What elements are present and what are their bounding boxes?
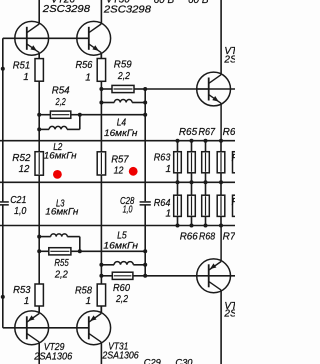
wire: bank column 1 middle lead [177, 173, 179, 195]
node: bank column 2 on upper rail [190, 139, 194, 143]
svg-text:R54: R54 [52, 85, 70, 96]
annotation: red dot marker (left) [53, 170, 62, 179]
wire: bank column 4 bottom lead [220, 216, 222, 225]
wire: bank column 4 top lead [220, 141, 222, 152]
node A (R51/R54 junction) [37, 113, 41, 117]
node: L5 left junction [99, 263, 103, 267]
svg-text:16мкГн: 16мкГн [44, 151, 78, 162]
svg-text:R56: R56 [76, 60, 93, 71]
resistor R59 body [112, 85, 134, 92]
resistor R64 body [174, 195, 182, 216]
node: R60 right junction / Q6 base node [143, 274, 147, 278]
transistor VT31 (2SA1306, PNP) [77, 306, 111, 345]
resistor R66 body [188, 195, 196, 216]
svg-text:2SC3298: 2SC3298 [42, 4, 91, 15]
svg-text:2,2: 2,2 [55, 97, 66, 108]
capacitor C21 plates (cut at left edge) [0, 201, 9, 203]
wire: R56 bottom to R59/L4 nodes and down across rail [100, 81, 102, 152]
wire: bank column 1 bottom lead [177, 216, 179, 225]
svg-text:R64: R64 [154, 198, 171, 209]
wire: bank column 2 bottom lead [191, 216, 193, 225]
wire: VT30 collector to top edge [100, 0, 102, 24]
svg-text:R72: R72 [232, 197, 236, 208]
svg-text:2SC3: 2SC3 [223, 55, 235, 66]
wire: R55 node wire right to output column [80, 250, 145, 252]
wire: R60 row left lead [101, 275, 113, 277]
wire: node A to L2 node to R52 [38, 115, 40, 152]
svg-text:60 В: 60 В [188, 0, 209, 6]
wire: left edge vertical bus (upper part) [2, 38, 4, 201]
wire: long horizontal rail (lower, bank bottom) [0, 225, 235, 227]
wire: bank column 3 bottom lead [205, 216, 207, 225]
svg-text:R68: R68 [199, 231, 215, 242]
svg-text:1: 1 [85, 296, 91, 307]
wire: L2 right lead up to node B [67, 128, 80, 130]
node: bank column 2 on lower rail [190, 224, 194, 228]
svg-text:2,2: 2,2 [117, 71, 130, 82]
svg-text:R53: R53 [13, 285, 31, 296]
svg-text:2SA1306: 2SA1306 [102, 350, 140, 361]
svg-text:R65: R65 [179, 127, 198, 138]
svg-text:R52: R52 [12, 153, 31, 164]
inductor L2 [49, 126, 67, 129]
node: R55 left junction [37, 249, 41, 253]
wire: bank column 3 middle lead [205, 173, 207, 195]
capacitor C28 plates [140, 201, 151, 203]
wire: L5 right lead [133, 264, 145, 266]
node: bank column 4 on lower rail [219, 224, 223, 228]
svg-text:R58: R58 [75, 286, 92, 297]
wire: L3 left lead [39, 236, 51, 238]
node: L3 left junction [37, 235, 41, 239]
node: junction on left bus (lower) [1, 295, 5, 299]
node: L4 left junction [99, 101, 103, 105]
transistor VT29 (2SA1306, PNP) [15, 306, 49, 345]
node: emitter-join wire junction [143, 113, 147, 117]
resistor R52 body [35, 152, 43, 176]
transistor VT30 (2SC3298, NPN) [77, 21, 111, 58]
svg-text:1: 1 [85, 73, 91, 84]
inductor L5 [114, 262, 133, 265]
svg-text:2SA1306: 2SA1306 [33, 351, 72, 362]
wire: R54 row from node A to node B [39, 114, 52, 116]
wire: long horizontal rail (upper, bank top) [0, 140, 235, 142]
node: L4 right junction [143, 101, 147, 105]
svg-text:16мкГн: 16мкГн [45, 207, 79, 218]
svg-text:R55: R55 [54, 258, 69, 269]
wire: VT29 collector to bottom edge [38, 342, 40, 364]
svg-text:C30: C30 [175, 357, 193, 364]
wire: R57 bottom down through rails to L5/R60 nodes [100, 175, 102, 265]
wire: R59 right lead to output column [134, 88, 145, 90]
wire: R55 row [39, 250, 50, 252]
svg-text:16мкГн: 16мкГн [103, 240, 138, 251]
resistor R65 body [188, 152, 196, 173]
annotation: red dot marker (right) [129, 167, 138, 176]
resistor R51 body [35, 59, 43, 82]
wire: bottom base wire tying VT29/VT31 bases [3, 327, 90, 329]
wire: VT32 collector to top edge [220, 0, 222, 75]
node: L5 right junction [143, 263, 147, 267]
node: junction of R55 wire with output column [143, 249, 147, 253]
wire: VT31 collector to bottom edge [100, 342, 102, 364]
svg-text:12: 12 [19, 164, 30, 175]
node: bank column 2 on middle rail [190, 180, 194, 184]
node: junction on left bus (upper) [1, 67, 5, 71]
wire: bank column 2 middle lead [191, 173, 193, 195]
svg-text:R66: R66 [180, 231, 198, 242]
resistor R60 body [112, 272, 133, 279]
node: L2 left junction [37, 127, 41, 131]
svg-text:C29: C29 [144, 357, 161, 364]
wire: bank column 4 middle lead [220, 173, 222, 195]
wire: node B to emitter-join wire toward output column [80, 114, 145, 116]
resistor R54 body [50, 111, 70, 118]
node: bank column 4 on middle rail [219, 180, 223, 184]
svg-text:12: 12 [114, 166, 124, 177]
wire: long horizontal rail (middle) [0, 181, 235, 183]
svg-text:C21: C21 [10, 195, 26, 206]
transistor VT32 (NPN, right) [197, 72, 231, 141]
svg-text:R63: R63 [154, 153, 171, 164]
inductor L4 [114, 100, 132, 103]
resistor R53 body [35, 284, 43, 306]
svg-text:R69: R69 [223, 127, 235, 138]
wire: R52 bottom down through rails to L3 node [38, 175, 40, 236]
svg-text:2SA1: 2SA1 [223, 308, 235, 319]
svg-text:1: 1 [165, 164, 171, 175]
wire: R60 right lead to output column [133, 275, 145, 277]
wire: bank column 1 top lead [177, 141, 179, 152]
svg-text:16мкГн: 16мкГн [104, 128, 138, 139]
svg-text:2SC3298: 2SC3298 [103, 5, 152, 16]
resistor R72 body (cut at right edge) [233, 195, 241, 216]
wire: L3 right lead down to R55 right node [67, 236, 80, 238]
wire: left edge vertical bus (lower part) [2, 204, 4, 327]
svg-text:1,0: 1,0 [123, 205, 133, 216]
svg-text:R67: R67 [199, 127, 216, 138]
resistor R68 body [202, 195, 210, 216]
wire: L4 left lead [101, 102, 114, 104]
svg-text:60 В: 60 В [154, 0, 175, 6]
node: bank column 3 on lower rail [204, 224, 208, 228]
wire: R53 bottom to VT29 emitter [38, 306, 40, 313]
wire: Q6 (VT34) base wire from output node [145, 275, 235, 277]
svg-text:1: 1 [165, 208, 171, 219]
wire: R51 bottom to R54 node [38, 81, 40, 115]
svg-text:R70: R70 [223, 231, 235, 242]
node: bank column 1 on middle rail [176, 180, 180, 184]
svg-text:1: 1 [23, 72, 29, 83]
wire: VT30 emitter to R56 [100, 53, 102, 59]
wire: top base wire tying VT26/VT30 bases [3, 37, 90, 39]
node: bank column 4 on upper rail [219, 139, 223, 143]
wire: VT26 emitter / R51 / node column [38, 53, 40, 59]
node: bank column 3 on middle rail [204, 180, 208, 184]
node: bank column 1 on upper rail [176, 139, 180, 143]
svg-text:2,2: 2,2 [115, 294, 128, 305]
svg-text:R59: R59 [114, 60, 132, 71]
wire: R59 row left lead [101, 88, 113, 90]
wire: L3 node to R55 node [38, 237, 40, 252]
svg-text:R71: R71 [232, 153, 236, 164]
svg-text:2,2: 2,2 [54, 270, 68, 281]
resistor R55 body [49, 248, 71, 255]
node: bank column 3 on upper rail [204, 139, 208, 143]
transistor VT26 (2SC3298, NPN) [15, 21, 49, 58]
node: bank column 1 on lower rail [176, 224, 180, 228]
node: R59 right junction [143, 87, 147, 91]
wire: VT34 collector to bottom edge [220, 290, 222, 364]
resistor R56 body [97, 59, 105, 82]
resistor R57 body [97, 152, 105, 175]
wire: L4 right lead [132, 102, 145, 104]
svg-text:1: 1 [24, 296, 30, 307]
wire: L2 left lead [39, 128, 49, 130]
resistor R58 body [97, 284, 105, 306]
wire: L5 node to R60 node to R58 [100, 265, 102, 284]
svg-text:R60: R60 [113, 283, 130, 294]
resistor R63 body [174, 152, 182, 173]
wire: output column from R59 node down to Q6 base node [144, 89, 146, 201]
node: R60 left junction [99, 274, 103, 278]
wire: R55 node down to R53 [38, 251, 40, 284]
node: R55/L3 right junction [78, 249, 82, 253]
wire: bank column 3 top lead [205, 141, 207, 152]
svg-text:1,0: 1,0 [14, 206, 27, 217]
node: R56/R59 junction [99, 87, 103, 91]
resistor R67 body [202, 152, 210, 173]
wire: R58 bottom to VT31 emitter [100, 306, 102, 313]
transistor VT34 (PNP, right) [197, 226, 231, 293]
svg-text:R57: R57 [111, 154, 129, 165]
inductor L3 [51, 234, 68, 237]
wire: L5 left lead [101, 264, 114, 266]
resistor R71 body (cut at right edge) [233, 152, 241, 173]
node B (R54/L2 right junction) [78, 113, 82, 117]
wire: bank column 2 top lead [191, 141, 193, 152]
resistor R69 body [217, 152, 225, 173]
wire: VT26 collector to top edge [38, 0, 40, 24]
wire: Q3 (VT32) base wire from output node [145, 88, 235, 90]
svg-text:R51: R51 [13, 60, 30, 71]
resistor R70 body [217, 195, 225, 216]
